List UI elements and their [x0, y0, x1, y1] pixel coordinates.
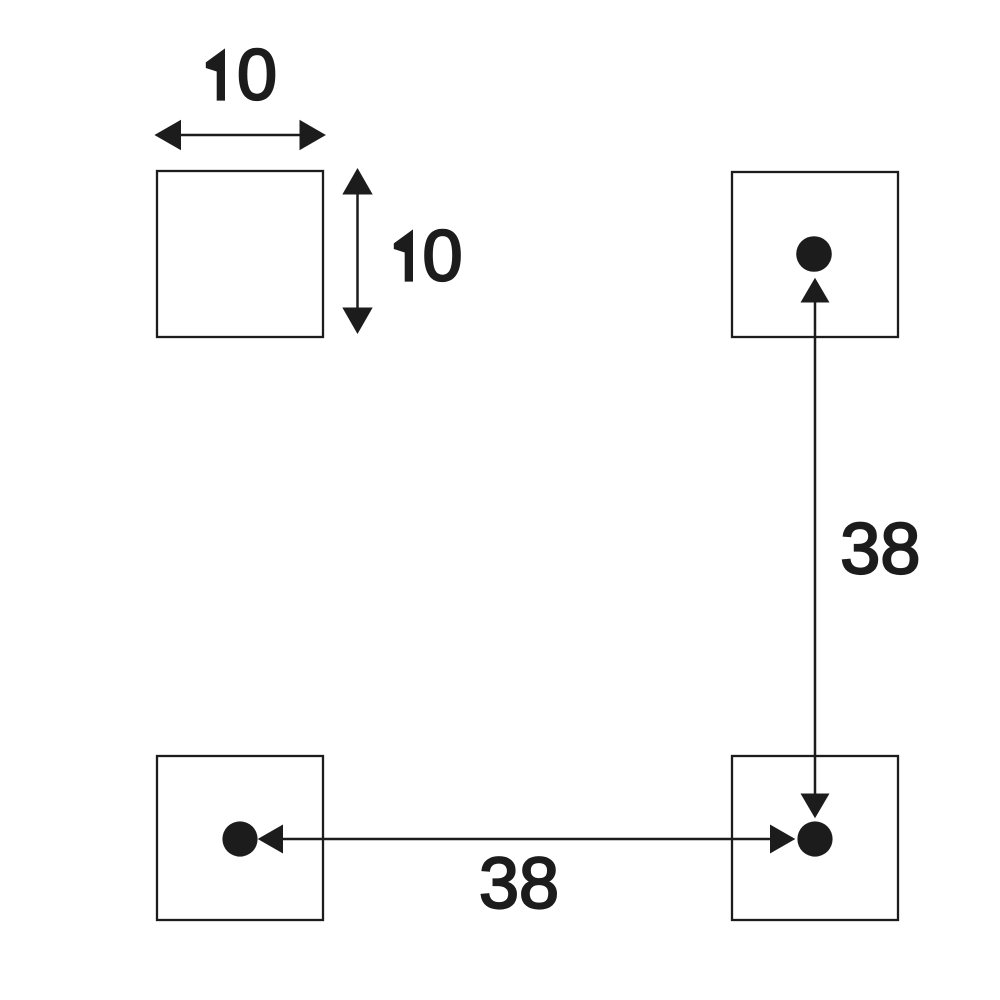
svg-text:0: 0	[423, 217, 463, 297]
mounting hole dot top-right	[796, 236, 832, 272]
svg-text:0: 0	[237, 36, 277, 116]
dimension line horizontal 38 (between bottom dots)	[258, 825, 796, 854]
dimension line vertical 38 (between right dots)	[801, 278, 830, 819]
square top-right	[732, 172, 898, 337]
svg-text:38: 38	[840, 510, 920, 590]
square bottom-right	[732, 756, 898, 920]
square top-left (10x10 detail)	[157, 171, 323, 337]
mounting hole dot bottom-right	[797, 821, 832, 856]
dimension arrow horizontal width 10 (above top-left square)	[154, 120, 326, 150]
mounting hole dot bottom-left	[222, 821, 257, 856]
svg-text:38: 38	[479, 844, 559, 924]
dimension arrow vertical height 10 (right of top-left square)	[342, 168, 372, 334]
square bottom-left	[157, 756, 323, 920]
label 10 (height): digit 1 drawn as polygon	[394, 229, 413, 281]
label 10 (width): digit 1 drawn as polygon (Arial-style, no foot serif)	[206, 48, 225, 100]
